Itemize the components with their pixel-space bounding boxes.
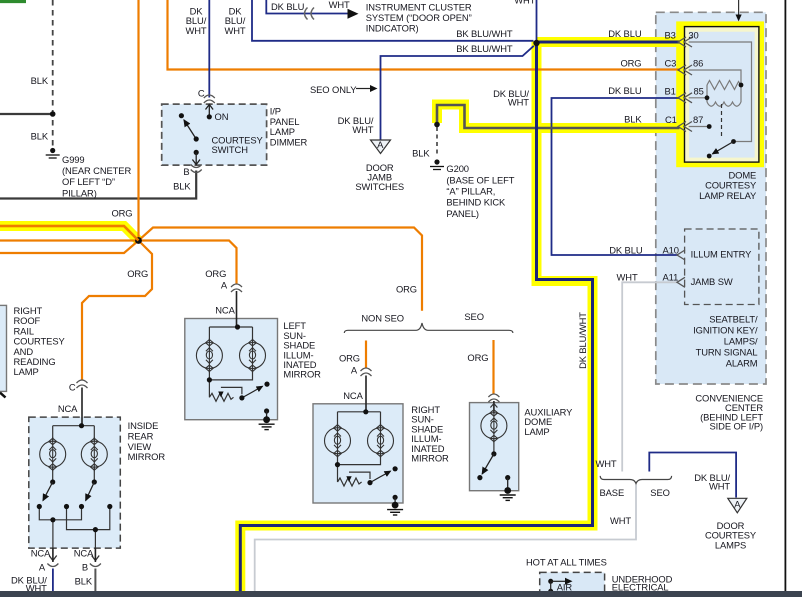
svg-text:WHT: WHT <box>610 515 631 526</box>
svg-text:NON SEO: NON SEO <box>361 312 404 323</box>
svg-text:G200: G200 <box>446 163 469 174</box>
svg-text:AIR: AIR <box>557 582 573 593</box>
svg-text:MIRROR: MIRROR <box>283 369 321 380</box>
svg-text:HOT AT ALL TIMES: HOT AT ALL TIMES <box>526 557 607 568</box>
svg-text:LAMP RELAY: LAMP RELAY <box>699 190 757 201</box>
svg-text:NCA: NCA <box>58 403 78 414</box>
svg-text:LAMPS/: LAMPS/ <box>724 336 758 347</box>
svg-text:87: 87 <box>693 114 703 125</box>
svg-text:DK BLU: DK BLU <box>608 28 642 39</box>
svg-text:SIDE OF I/P): SIDE OF I/P) <box>710 421 764 432</box>
svg-text:SEATBELT/: SEATBELT/ <box>709 313 758 324</box>
svg-text:IGNITION KEY/: IGNITION KEY/ <box>693 324 758 335</box>
svg-text:BK BLU/WHT: BK BLU/WHT <box>456 28 513 39</box>
svg-text:ALARM: ALARM <box>726 358 758 369</box>
svg-text:WHT: WHT <box>329 0 350 10</box>
svg-text:SEO ONLY: SEO ONLY <box>310 84 357 95</box>
svg-text:WHT: WHT <box>709 480 730 491</box>
svg-text:WHT: WHT <box>508 96 529 107</box>
svg-text:ORG: ORG <box>396 284 417 295</box>
svg-text:VIEW: VIEW <box>128 441 152 452</box>
svg-text:LAMP: LAMP <box>14 366 39 377</box>
svg-text:86: 86 <box>693 58 703 69</box>
svg-text:DK BLU/WHT: DK BLU/WHT <box>577 312 588 369</box>
svg-text:A: A <box>377 139 384 150</box>
svg-text:DK BLU: DK BLU <box>609 245 643 256</box>
svg-text:LAMPS: LAMPS <box>715 539 746 550</box>
svg-text:BLK: BLK <box>31 131 49 142</box>
svg-text:SWITCH: SWITCH <box>212 144 248 155</box>
svg-text:NCA: NCA <box>31 548 51 559</box>
svg-text:INDICATOR): INDICATOR) <box>366 23 419 34</box>
svg-text:DK BLU: DK BLU <box>608 85 642 96</box>
svg-text:NCA: NCA <box>343 390 363 401</box>
svg-text:DIMMER: DIMMER <box>270 136 308 147</box>
svg-text:“A” PILLAR,: “A” PILLAR, <box>446 186 495 197</box>
svg-text:ORG: ORG <box>467 352 488 363</box>
svg-text:INSIDE: INSIDE <box>128 420 159 431</box>
svg-text:G999: G999 <box>62 154 85 165</box>
svg-text:WHT: WHT <box>595 458 616 469</box>
svg-text:INSTRUMENT CLUSTER: INSTRUMENT CLUSTER <box>366 1 472 12</box>
svg-text:A: A <box>734 499 741 510</box>
svg-text:C1: C1 <box>665 114 677 125</box>
svg-text:ORG: ORG <box>620 57 641 68</box>
svg-text:85: 85 <box>694 86 704 97</box>
svg-text:ORG: ORG <box>111 208 132 219</box>
svg-text:JAMB SW: JAMB SW <box>691 276 733 287</box>
svg-text:C3: C3 <box>665 58 677 69</box>
svg-text:PILLAR): PILLAR) <box>62 187 97 198</box>
svg-text:LAMP: LAMP <box>524 426 549 437</box>
svg-text:A: A <box>221 280 228 291</box>
svg-text:BK BLU/WHT: BK BLU/WHT <box>456 43 513 54</box>
svg-text:OF LEFT “D”: OF LEFT “D” <box>62 176 115 187</box>
svg-text:ORG: ORG <box>339 353 360 364</box>
svg-text:REAR: REAR <box>128 430 154 441</box>
svg-text:A11: A11 <box>663 271 679 282</box>
svg-text:B: B <box>183 166 189 177</box>
svg-text:WHT: WHT <box>617 271 638 282</box>
svg-text:WHT: WHT <box>352 124 373 135</box>
svg-text:ORG: ORG <box>127 268 148 279</box>
svg-text:BLK: BLK <box>412 148 430 159</box>
svg-text:BLK: BLK <box>75 576 93 587</box>
svg-text:SEO: SEO <box>650 487 670 498</box>
svg-text:TURN SIGNAL: TURN SIGNAL <box>696 347 758 358</box>
svg-text:MIRROR: MIRROR <box>128 451 166 462</box>
svg-text:NCA: NCA <box>74 548 94 559</box>
svg-text:A: A <box>351 365 358 376</box>
svg-text:BASE: BASE <box>600 487 625 498</box>
svg-text:BLK: BLK <box>31 75 49 86</box>
svg-text:BLK: BLK <box>624 114 642 125</box>
svg-text:SWITCHES: SWITCHES <box>355 181 404 192</box>
svg-text:ON: ON <box>215 111 229 122</box>
svg-text:MIRROR: MIRROR <box>411 453 449 464</box>
svg-text:SEO: SEO <box>464 311 484 322</box>
svg-text:DK BLU: DK BLU <box>271 1 305 12</box>
svg-text:B: B <box>82 562 88 573</box>
svg-text:WHT: WHT <box>185 25 206 36</box>
svg-text:30: 30 <box>688 30 698 41</box>
svg-text:ILLUM ENTRY: ILLUM ENTRY <box>691 249 753 260</box>
svg-text:A: A <box>39 562 46 573</box>
svg-text:WHT: WHT <box>224 25 245 36</box>
svg-text:SYSTEM (“DOOR OPEN”: SYSTEM (“DOOR OPEN” <box>366 12 472 23</box>
svg-text:NCA: NCA <box>215 304 235 315</box>
svg-text:C: C <box>198 88 205 99</box>
svg-text:(BASE OF LEFT: (BASE OF LEFT <box>446 174 514 185</box>
svg-text:(NEAR CNETER: (NEAR CNETER <box>62 165 131 176</box>
svg-text:B3: B3 <box>665 30 676 41</box>
svg-text:BLK: BLK <box>173 181 191 192</box>
svg-text:A10: A10 <box>663 245 679 256</box>
svg-text:C: C <box>69 382 76 393</box>
svg-text:ORG: ORG <box>205 268 226 279</box>
svg-text:WHT: WHT <box>514 0 535 6</box>
svg-text:PANEL): PANEL) <box>446 208 479 219</box>
svg-text:BEHIND KICK: BEHIND KICK <box>446 197 506 208</box>
svg-text:B1: B1 <box>665 86 676 97</box>
